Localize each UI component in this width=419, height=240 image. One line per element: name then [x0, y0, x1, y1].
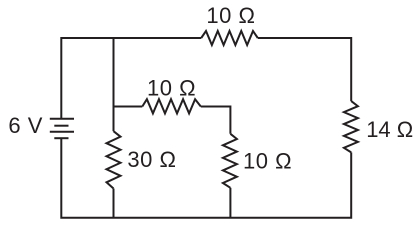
svg-text:10 Ω: 10 Ω [206, 3, 255, 28]
wire: inner vertical lower (R3 to bottom wire) [113, 189, 115, 218]
svg-text:10 Ω: 10 Ω [147, 75, 196, 100]
wire: left wire below battery, bottom wire, right wire lower part [61, 138, 351, 218]
svg-text:10 Ω: 10 Ω [243, 148, 292, 173]
wire: top-right segment and right wire down to R5 [258, 38, 351, 101]
battery V1 6 V [50, 119, 74, 139]
wire: middle branch right with corner down to R4 [201, 107, 231, 134]
wire: below R4 to bottom wire [229, 188, 231, 218]
resistor R3 30 ohm [107, 131, 121, 188]
resistor R2 10 ohm (middle) [142, 99, 201, 113]
resistor R5 14 ohm [344, 101, 358, 152]
wire: inner vertical upper (top wire to R3) [113, 38, 115, 131]
wire: middle branch left [114, 106, 143, 108]
svg-text:30 Ω: 30 Ω [127, 147, 176, 172]
svg-text:14 Ω: 14 Ω [366, 117, 413, 142]
resistor R1 10 ohm (top) [201, 31, 258, 45]
resistor R4 10 ohm (vertical) [223, 134, 237, 188]
wire: top-left segment and left wire down to battery [61, 38, 201, 119]
svg-text:6 V: 6 V [8, 113, 43, 138]
